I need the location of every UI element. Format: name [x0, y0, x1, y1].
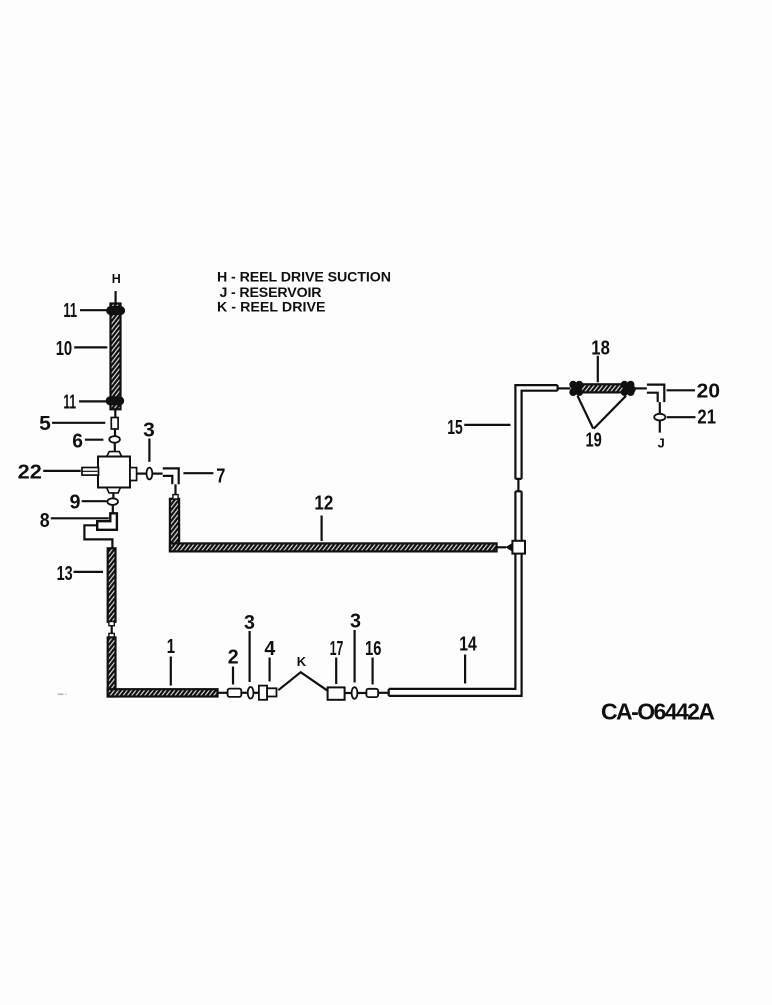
- svg-text:16: 16: [365, 637, 381, 660]
- svg-text:1: 1: [167, 635, 175, 658]
- svg-text:14: 14: [459, 632, 477, 655]
- svg-text:6: 6: [72, 429, 83, 452]
- svg-text:17: 17: [330, 637, 344, 660]
- svg-text:19: 19: [586, 429, 602, 452]
- svg-text:9: 9: [70, 490, 81, 513]
- svg-text:12: 12: [314, 492, 333, 515]
- svg-text:11: 11: [63, 299, 77, 322]
- svg-text:3: 3: [143, 419, 155, 442]
- svg-text:5: 5: [39, 412, 51, 435]
- svg-text:3: 3: [350, 610, 361, 633]
- svg-text:18: 18: [591, 337, 610, 360]
- svg-text:7: 7: [216, 465, 225, 488]
- svg-text:K - REEL DRIVE: K - REEL DRIVE: [217, 299, 326, 315]
- svg-text:15: 15: [447, 416, 463, 439]
- svg-text:22: 22: [18, 461, 42, 484]
- svg-text:CA-O6442A: CA-O6442A: [601, 699, 716, 725]
- svg-text:21: 21: [697, 405, 716, 428]
- svg-text:4: 4: [264, 637, 275, 660]
- svg-text:20: 20: [697, 380, 720, 403]
- svg-text:11: 11: [63, 391, 76, 414]
- svg-text:13: 13: [57, 562, 73, 585]
- svg-text:H - REEL DRIVE SUCTION: H - REEL DRIVE SUCTION: [217, 269, 391, 285]
- svg-text:K: K: [297, 654, 307, 669]
- svg-text:2: 2: [228, 645, 239, 668]
- svg-text:J: J: [658, 436, 665, 451]
- svg-text:10: 10: [56, 337, 72, 360]
- svg-text:3: 3: [244, 611, 255, 634]
- svg-text:8: 8: [40, 509, 50, 532]
- svg-text:H: H: [112, 272, 121, 286]
